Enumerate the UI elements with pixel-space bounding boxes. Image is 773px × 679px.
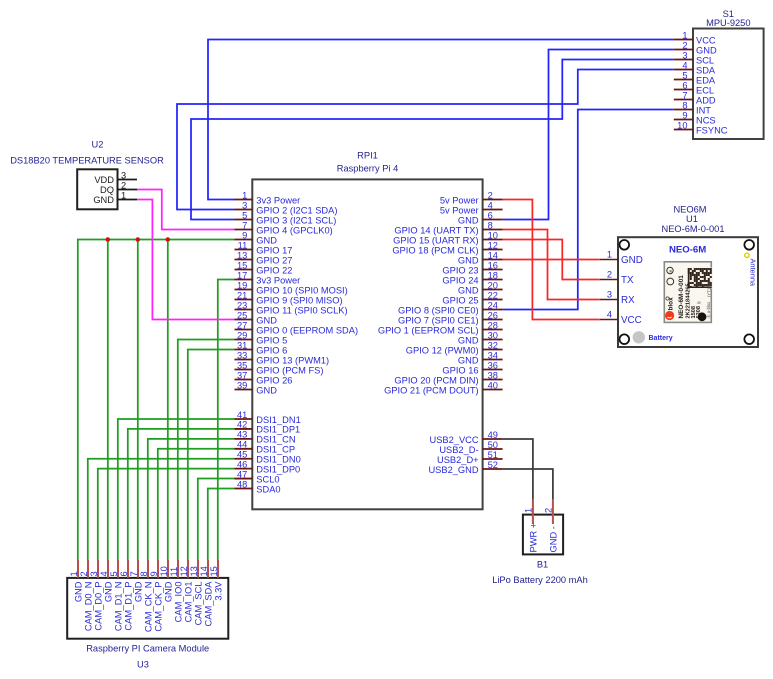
svg-text:23: 23 xyxy=(237,300,247,310)
svg-text:CAM_CK_P: CAM_CK_P xyxy=(153,582,163,632)
svg-text:GPIO 17: GPIO 17 xyxy=(256,245,292,255)
B1 pin 2 (GND -) xyxy=(544,499,559,553)
svg-text:9: 9 xyxy=(697,301,703,304)
U3 pin 12 (CAM_IO1) xyxy=(179,560,194,622)
svg-text:GPIO 5: GPIO 5 xyxy=(256,335,287,345)
svg-text:7: 7 xyxy=(242,220,247,230)
U3 pin 7 (GND) xyxy=(129,560,144,602)
svg-text:GPIO 25: GPIO 25 xyxy=(442,295,478,305)
S1 pin 3 (SCL) xyxy=(674,50,714,65)
svg-text:1: 1 xyxy=(242,190,247,200)
svg-text:GPIO 26: GPIO 26 xyxy=(256,375,292,385)
svg-text:CAM_D1_N: CAM_D1_N xyxy=(113,582,123,632)
svg-text:36: 36 xyxy=(488,360,498,370)
svg-text:6: 6 xyxy=(119,571,129,576)
svg-text:CAM_SCL: CAM_SCL xyxy=(193,582,203,626)
NEO6M antenna connector xyxy=(745,253,749,257)
RPI1 pin 10 (GPIO 15 (UART RX)) xyxy=(393,230,502,245)
svg-text:2: 2 xyxy=(79,571,89,576)
svg-text:GPIO 22: GPIO 22 xyxy=(256,265,292,275)
mounting hole xyxy=(744,240,754,250)
U3 pin 2 (CAM_D0_N) xyxy=(79,560,94,631)
svg-text:GND: GND xyxy=(256,235,277,245)
svg-text:B1: B1 xyxy=(537,560,548,570)
RPI1 pin 27 (GPIO 0 (EEPROM SDA)) xyxy=(235,320,359,335)
svg-text:GND: GND xyxy=(621,255,643,266)
svg-text:GND: GND xyxy=(458,255,479,265)
RPI1 pin 44 (DSI1_CP) xyxy=(235,440,296,455)
svg-text:CAM_D0_N: CAM_D0_N xyxy=(83,582,93,632)
wire RPI1.10 (UART RX) to U1.TX red xyxy=(503,240,600,280)
svg-text:GND: GND xyxy=(696,45,717,55)
wire RPI1.17 (3v3) to U3.15 green xyxy=(218,280,235,561)
U1 pin 2 (TX) xyxy=(600,270,634,286)
svg-text:4: 4 xyxy=(607,310,612,320)
NEO6M chip image xyxy=(664,262,712,323)
mounting hole xyxy=(620,240,630,250)
U2 pin 3 (VDD) xyxy=(94,170,137,185)
svg-text:12: 12 xyxy=(179,566,189,576)
svg-text:blox: blox xyxy=(668,297,675,311)
svg-text:15: 15 xyxy=(209,566,219,576)
RPI1 pin 51 (USB2_D+) xyxy=(437,450,503,465)
svg-text:50: 50 xyxy=(488,440,498,450)
svg-text:3: 3 xyxy=(682,50,687,60)
svg-text:DQ: DQ xyxy=(100,185,114,195)
svg-text:4: 4 xyxy=(99,571,109,576)
svg-text:SDA0: SDA0 xyxy=(256,484,280,494)
RPI1 pin 43 (DSI1_CN) xyxy=(235,430,296,445)
RPI1 pin 13 (GPIO 27) xyxy=(235,250,293,265)
svg-text:18: 18 xyxy=(488,270,498,280)
svg-text:3v3 Power: 3v3 Power xyxy=(256,195,300,205)
svg-text:5v Power: 5v Power xyxy=(440,205,479,215)
svg-text:U1: U1 xyxy=(686,214,698,224)
svg-text:4: 4 xyxy=(682,60,687,70)
svg-text:6: 6 xyxy=(488,210,493,220)
U1 pin 1 (GND) xyxy=(600,250,643,266)
svg-text:GPIO 15 (UART RX): GPIO 15 (UART RX) xyxy=(393,235,478,245)
svg-text:ce: ce xyxy=(668,269,673,274)
wire RPI1.31 (GPIO6) to U3.12 green xyxy=(188,350,235,561)
svg-text:DS18B20 TEMPERATURE SENSOR: DS18B20 TEMPERATURE SENSOR xyxy=(10,156,164,166)
svg-text:40: 40 xyxy=(488,380,498,390)
svg-text:52: 52 xyxy=(488,460,498,470)
wire S1.GND to RPI1.6 (GND) blue xyxy=(503,50,674,220)
svg-text:9: 9 xyxy=(682,110,687,120)
svg-text:14: 14 xyxy=(488,250,498,260)
wire GND branch to U3.10 green xyxy=(167,240,169,561)
U3 pin 9 (CAM_CK_P) xyxy=(149,560,164,632)
RPI1 pin 37 (GPIO 26) xyxy=(235,370,293,385)
RPI1 pin 18 (GPIO 24) xyxy=(442,270,502,285)
svg-text:9: 9 xyxy=(149,571,159,576)
svg-text:20: 20 xyxy=(488,280,498,290)
svg-text:SCL: SCL xyxy=(696,55,714,65)
svg-text:33: 33 xyxy=(237,350,247,360)
svg-text:ECL: ECL xyxy=(696,85,714,95)
svg-text:2: 2 xyxy=(682,40,687,50)
svg-text:NEO-6M-0-001: NEO-6M-0-001 xyxy=(661,224,724,234)
svg-text:INT: INT xyxy=(696,105,711,115)
wire RPI1.41 to U3.5 green xyxy=(118,419,235,560)
RPI1 pin 22 (GPIO 25) xyxy=(442,290,502,305)
RPI1 pin 19 (GPIO 10 (SPI0 MOSI)) xyxy=(235,280,348,295)
wire S1.VCC to RPI1.1 (3v3) blue xyxy=(208,40,674,200)
svg-text:Ⓢ u-blox: Ⓢ u-blox xyxy=(705,301,712,319)
svg-text:GPIO 13 (PWM1): GPIO 13 (PWM1) xyxy=(256,355,329,365)
S1 pin 7 (ADD) xyxy=(674,90,716,105)
svg-text:GPIO 7 (SPI0 CE1): GPIO 7 (SPI0 CE1) xyxy=(398,315,479,325)
svg-text:47: 47 xyxy=(237,469,247,479)
RPI1 pin 32 (GPIO 12 (PWM0)) xyxy=(406,340,503,355)
svg-text:8: 8 xyxy=(139,571,149,576)
svg-text:3: 3 xyxy=(121,170,126,180)
svg-text:10: 10 xyxy=(677,120,687,130)
RPI1 pin 35 (GPIO (PCM FS)) xyxy=(235,360,324,375)
wire RPI1.45 to U3.2 green xyxy=(88,459,235,560)
svg-text:USB2_D+: USB2_D+ xyxy=(437,455,479,465)
wire RPI1.46 to U3.3 green xyxy=(98,469,235,560)
svg-text:31: 31 xyxy=(237,340,247,350)
RPI1 pin 6 (GND) xyxy=(458,210,503,225)
svg-text:Raspberry PI Camera Module: Raspberry PI Camera Module xyxy=(86,644,209,654)
wire RPI1.52 (USB2_GND) to B1.2 black xyxy=(503,469,553,499)
svg-text:LiPo Battery 2200 mAh: LiPo Battery 2200 mAh xyxy=(492,575,588,585)
svg-text:14: 14 xyxy=(199,566,209,576)
svg-text:DSI1_DP0: DSI1_DP0 xyxy=(256,464,300,474)
svg-text:GND: GND xyxy=(133,581,143,602)
svg-text:DSI1_DN0: DSI1_DN0 xyxy=(256,455,300,465)
svg-text:GPIO 18 (PCM CLK): GPIO 18 (PCM CLK) xyxy=(392,245,478,255)
svg-text:Battery: Battery xyxy=(649,335,673,342)
svg-text:SCL0: SCL0 xyxy=(256,474,279,484)
svg-text:35: 35 xyxy=(237,360,247,370)
junction dot xyxy=(106,237,111,242)
svg-text:9: 9 xyxy=(242,230,247,240)
svg-text:46: 46 xyxy=(237,459,247,469)
svg-text:28: 28 xyxy=(488,320,498,330)
U3 pin 5 (CAM_D1_N) xyxy=(109,560,124,631)
svg-text:CAM_SDA: CAM_SDA xyxy=(203,581,213,627)
svg-text:29: 29 xyxy=(237,330,247,340)
svg-text:CAM_D0_P: CAM_D0_P xyxy=(93,582,103,631)
RPI1 pin 38 (GPIO 20 (PCM DIN)) xyxy=(394,370,502,385)
svg-text:5v Power: 5v Power xyxy=(440,195,479,205)
svg-text:1: 1 xyxy=(524,508,534,513)
svg-text:39: 39 xyxy=(237,380,247,390)
IC S1 MPU-9250 body xyxy=(693,29,764,140)
module U1 NEO6M board xyxy=(618,237,758,347)
IC RPI1 Raspberry Pi 4 body xyxy=(252,179,482,509)
svg-text:GPIO 23: GPIO 23 xyxy=(442,265,478,275)
U3 pin 6 (CAM_D1_P) xyxy=(119,560,134,631)
svg-text:GND -: GND - xyxy=(548,526,558,552)
svg-text:U2: U2 xyxy=(92,140,104,150)
svg-text:10: 10 xyxy=(488,230,498,240)
wire RPI1.2 (5v) to U1.VCC red xyxy=(503,200,600,320)
svg-text:DSI1_DP1: DSI1_DP1 xyxy=(256,425,300,435)
RPI1 pin 47 (SCL0) xyxy=(235,469,280,484)
svg-text:7: 7 xyxy=(129,571,139,576)
S1 pin 5 (EDA) xyxy=(674,70,716,85)
svg-text:DSI1_DN1: DSI1_DN1 xyxy=(256,415,300,425)
svg-text:8: 8 xyxy=(682,100,687,110)
U3 pin 3 (CAM_D0_P) xyxy=(89,560,104,631)
S1 pin 1 (VCC) xyxy=(674,30,716,45)
svg-text:38: 38 xyxy=(488,370,498,380)
RPI1 pin 14 (GND) xyxy=(458,250,503,265)
svg-text:1: 1 xyxy=(121,190,126,200)
svg-text:22: 22 xyxy=(488,290,498,300)
svg-text:GPIO 24: GPIO 24 xyxy=(442,275,478,285)
svg-text:43: 43 xyxy=(237,430,247,440)
svg-text:GND: GND xyxy=(458,285,479,295)
wire S1.SDA to RPI1.3 (GPIO2 SDA) blue xyxy=(177,70,674,210)
RPI1 pin 8 (GPIO 14 (UART TX)) xyxy=(394,220,502,235)
svg-text:GPIO 10 (SPI0 MOSI): GPIO 10 (SPI0 MOSI) xyxy=(256,285,347,295)
svg-text:11: 11 xyxy=(169,567,179,577)
svg-text:GPIO 11 (SPI0 SCLK): GPIO 11 (SPI0 SCLK) xyxy=(256,305,347,315)
svg-text:5: 5 xyxy=(682,70,687,80)
svg-text:FSYNC: FSYNC xyxy=(696,125,728,135)
RPI1 pin 1 (3v3 Power) xyxy=(235,190,301,205)
svg-text:1: 1 xyxy=(607,250,612,260)
svg-text:12: 12 xyxy=(488,240,498,250)
U1 pin 3 (RX) xyxy=(600,290,635,306)
svg-text:3v3 Power: 3v3 Power xyxy=(256,275,300,285)
RPI1 pin 26 (GPIO 7 (SPI0 CE1)) xyxy=(398,310,503,325)
wire RPI1.8 (UART TX) to U1.RX red xyxy=(503,230,600,300)
wire S1.INT to RPI1.24 (GPIO8) blue xyxy=(503,110,674,310)
svg-text:GND: GND xyxy=(93,195,114,205)
RPI1 pin 2 (5v Power) xyxy=(440,190,503,205)
wire GND branch to U3.7 green xyxy=(137,240,139,561)
RPI1 pin 23 (GPIO 11 (SPI0 SCLK)) xyxy=(235,300,348,315)
RPI1 pin 24 (GPIO 8 (SPI0 CE0)) xyxy=(398,300,503,315)
wire S1.SCL to RPI1.5 (GPIO3 SCL) blue xyxy=(191,60,674,220)
RPI1 pin 31 (GPIO 6) xyxy=(235,340,288,355)
svg-text:GPIO 2 (I2C1 SDA): GPIO 2 (I2C1 SDA) xyxy=(256,205,337,215)
svg-text:44: 44 xyxy=(237,440,247,450)
svg-text:4: 4 xyxy=(488,200,493,210)
svg-text:5: 5 xyxy=(242,210,247,220)
U3 pin 13 (CAM_SCL) xyxy=(189,560,204,625)
svg-text:GND: GND xyxy=(256,385,277,395)
svg-text:13: 13 xyxy=(189,566,199,576)
svg-text:11: 11 xyxy=(238,240,248,250)
RPI1 pin 40 (GPIO 21 (PCM DOUT)) xyxy=(384,380,503,395)
wire RPI1.42 to U3.6 green xyxy=(128,429,235,560)
module U3 Raspberry PI Camera body xyxy=(67,578,228,639)
svg-text:GND: GND xyxy=(103,581,113,602)
wire RPI1.14 (GND) to U1.GND red xyxy=(503,259,600,261)
svg-text:GPIO 4 (GPCLK0): GPIO 4 (GPCLK0) xyxy=(256,225,332,235)
svg-text:U3: U3 xyxy=(137,660,149,670)
RPI1 pin 41 (DSI1_DN1) xyxy=(235,410,301,425)
svg-text:DSI1_CP: DSI1_CP xyxy=(256,445,295,455)
U2 pin 2 (DQ) xyxy=(100,180,137,195)
svg-text:GPIO 9 (SPI0 MISO): GPIO 9 (SPI0 MISO) xyxy=(256,295,342,305)
RPI1 pin 20 (GND) xyxy=(458,280,503,295)
wire U2.DQ to RPI1.7 (GPIO4) magenta xyxy=(137,190,235,230)
svg-text:24: 24 xyxy=(488,300,498,310)
svg-text:MPU-9250: MPU-9250 xyxy=(706,18,750,28)
S1 pin 6 (ECL) xyxy=(674,80,714,95)
svg-text:16: 16 xyxy=(488,260,498,270)
RPI1 pin 42 (DSI1_DP1) xyxy=(235,420,301,435)
svg-text:NEO-6M: NEO-6M xyxy=(669,244,706,255)
svg-text:DSI1_CN: DSI1_CN xyxy=(256,435,295,445)
svg-text:45: 45 xyxy=(237,450,247,460)
svg-text:GPIO 20 (PCM DIN): GPIO 20 (PCM DIN) xyxy=(394,375,478,385)
svg-text:EDA: EDA xyxy=(696,75,716,85)
U3 pin 10 (GND) xyxy=(159,560,174,602)
svg-text:GPIO 8 (SPI0 CE0): GPIO 8 (SPI0 CE0) xyxy=(398,305,479,315)
svg-text:VDD: VDD xyxy=(94,175,114,185)
wire RPI1.43 to U3.8 green xyxy=(148,439,235,560)
NEO6M backup battery xyxy=(633,331,645,343)
svg-text:VCC: VCC xyxy=(696,35,716,45)
svg-text:1: 1 xyxy=(682,30,687,40)
svg-text:2: 2 xyxy=(488,190,493,200)
B1 pin 1 (PWR +) xyxy=(524,499,539,553)
U3 pin 15 (3.3V) xyxy=(209,560,224,601)
svg-text:41: 41 xyxy=(237,410,247,420)
RPI1 pin 11 (GPIO 17) xyxy=(235,240,293,255)
RPI1 pin 17 (3v3 Power) xyxy=(235,270,301,285)
RPI1 pin 39 (GND) xyxy=(235,380,278,395)
sensor U2 DS18B20 body xyxy=(77,169,117,209)
svg-text:GPIO 0 (EEPROM SDA): GPIO 0 (EEPROM SDA) xyxy=(256,325,358,335)
svg-text:GPIO 1 (EEPROM SCL): GPIO 1 (EEPROM SCL) xyxy=(378,325,479,335)
svg-text:GND: GND xyxy=(163,581,173,602)
wire U2.GND to RPI1.25 (GND) magenta xyxy=(137,200,235,320)
U3 pin 4 (GND) xyxy=(99,560,114,602)
svg-text:GPIO 16: GPIO 16 xyxy=(442,365,478,375)
svg-text:VCC: VCC xyxy=(621,315,642,326)
svg-text:51: 51 xyxy=(488,450,498,460)
wire RPI1.47 to U3.13 green xyxy=(198,479,235,561)
RPI1 pin 28 (GPIO 1 (EEPROM SCL)) xyxy=(378,320,503,335)
svg-text:GPIO 27: GPIO 27 xyxy=(256,255,292,265)
RPI1 pin 30 (GND) xyxy=(458,330,503,345)
RPI1 pin 25 (GND) xyxy=(235,310,278,325)
svg-text:CAM_IO1: CAM_IO1 xyxy=(183,582,193,623)
RPI1 pin 15 (GPIO 22) xyxy=(235,260,293,275)
junction dot xyxy=(166,237,171,242)
svg-text:49: 49 xyxy=(488,430,498,440)
RPI1 pin 49 (USB2_VCC) xyxy=(430,430,503,445)
RPI1 pin 50 (USB2_D-) xyxy=(439,440,502,455)
svg-text:13: 13 xyxy=(237,250,247,260)
U3 pin 14 (CAM_SDA) xyxy=(199,560,214,626)
U2 pin 1 (GND) xyxy=(93,190,137,205)
svg-text:21: 21 xyxy=(237,290,247,300)
svg-text:CAM_D1_P: CAM_D1_P xyxy=(123,582,133,631)
svg-text:GPIO 12 (PWM0): GPIO 12 (PWM0) xyxy=(406,345,479,355)
svg-text:GND: GND xyxy=(73,581,83,602)
svg-text:SDA: SDA xyxy=(696,65,716,75)
wire RPI1.29 (GPIO5) to U3.11 green xyxy=(178,340,235,561)
svg-text:PWR +: PWR + xyxy=(528,523,538,553)
svg-text:CAM_IO0: CAM_IO0 xyxy=(173,582,183,623)
svg-text:NEO-6M-0-001: NEO-6M-0-001 xyxy=(678,275,685,319)
RPI1 pin 12 (GPIO 18 (PCM CLK)) xyxy=(392,240,502,255)
svg-text:GPIO 3 (I2C1 SCL): GPIO 3 (I2C1 SCL) xyxy=(256,215,336,225)
svg-text:34: 34 xyxy=(488,350,498,360)
RPI1 pin 45 (DSI1_DN0) xyxy=(235,450,301,465)
S1 pin 8 (INT) xyxy=(674,100,711,115)
svg-text:3: 3 xyxy=(607,290,612,300)
svg-text:2: 2 xyxy=(607,270,612,280)
wire RPI1.44 to U3.9 green xyxy=(158,449,235,560)
RPI1 pin 33 (GPIO 13 (PWM1)) xyxy=(235,350,330,365)
svg-text:IYT1RM: IYT1RM xyxy=(707,281,712,297)
svg-text:19: 19 xyxy=(237,280,247,290)
svg-text:27: 27 xyxy=(237,320,247,330)
svg-text:GPIO 21 (PCM DOUT): GPIO 21 (PCM DOUT) xyxy=(384,385,479,395)
svg-text:USB2_GND: USB2_GND xyxy=(428,465,478,475)
RPI1 pin 52 (USB2_GND) xyxy=(428,460,502,475)
svg-text:5: 5 xyxy=(109,571,119,576)
svg-text:NCS: NCS xyxy=(696,115,716,125)
U3 pin 8 (CAM_CK_N) xyxy=(139,560,154,632)
svg-text:Raspberry Pi 4: Raspberry Pi 4 xyxy=(337,164,399,174)
U3 pin 11 (CAM_IO0) xyxy=(169,560,184,622)
svg-text:26: 26 xyxy=(488,310,498,320)
svg-text:Antenna: Antenna xyxy=(748,259,757,287)
svg-text:TX: TX xyxy=(621,275,634,286)
S1 pin 2 (GND) xyxy=(674,40,717,55)
RPI1 pin 5 (GPIO 3 (I2C1 SCL)) xyxy=(235,210,337,225)
U3 pin 1 (GND) xyxy=(69,560,84,602)
svg-text:3: 3 xyxy=(89,571,99,576)
svg-text:2: 2 xyxy=(121,180,126,190)
svg-text:3: 3 xyxy=(242,200,247,210)
wire GND branch to U3.4 green xyxy=(107,240,109,561)
svg-text:GND: GND xyxy=(256,315,277,325)
RPI1 pin 16 (GPIO 23) xyxy=(442,260,502,275)
mounting hole xyxy=(620,334,630,344)
svg-text:2: 2 xyxy=(544,508,554,513)
svg-text:USB2_D-: USB2_D- xyxy=(439,445,478,455)
RPI1 pin 21 (GPIO 9 (SPI0 MISO)) xyxy=(235,290,343,305)
svg-text:6: 6 xyxy=(682,80,687,90)
S1 pin 9 (NCS) xyxy=(674,110,716,125)
U1 pin 4 (VCC) xyxy=(600,310,642,326)
svg-text:GPIO (PCM FS): GPIO (PCM FS) xyxy=(256,365,323,375)
svg-text:8: 8 xyxy=(488,220,493,230)
RPI1 pin 46 (DSI1_DP0) xyxy=(235,459,301,474)
S1 pin 4 (SDA) xyxy=(674,60,716,75)
svg-text:GPIO 14 (UART TX): GPIO 14 (UART TX) xyxy=(394,225,478,235)
svg-text:ADD: ADD xyxy=(696,95,716,105)
svg-text:7: 7 xyxy=(682,90,687,100)
wire RPI1.49 (USB2_VCC) to B1.1 black xyxy=(503,439,533,499)
svg-text:37: 37 xyxy=(237,370,247,380)
RPI1 pin 36 (GPIO 16) xyxy=(442,360,502,375)
svg-text:GND: GND xyxy=(458,355,479,365)
RPI1 pin 9 (GND) xyxy=(235,230,278,245)
svg-text:RX: RX xyxy=(621,295,635,306)
svg-text:3.3V: 3.3V xyxy=(213,581,223,601)
RPI1 pin 34 (GND) xyxy=(458,350,503,365)
svg-text:25: 25 xyxy=(237,310,247,320)
RPI1 pin 29 (GPIO 5) xyxy=(235,330,288,345)
svg-text:42: 42 xyxy=(237,420,247,430)
svg-text:10: 10 xyxy=(159,566,169,576)
